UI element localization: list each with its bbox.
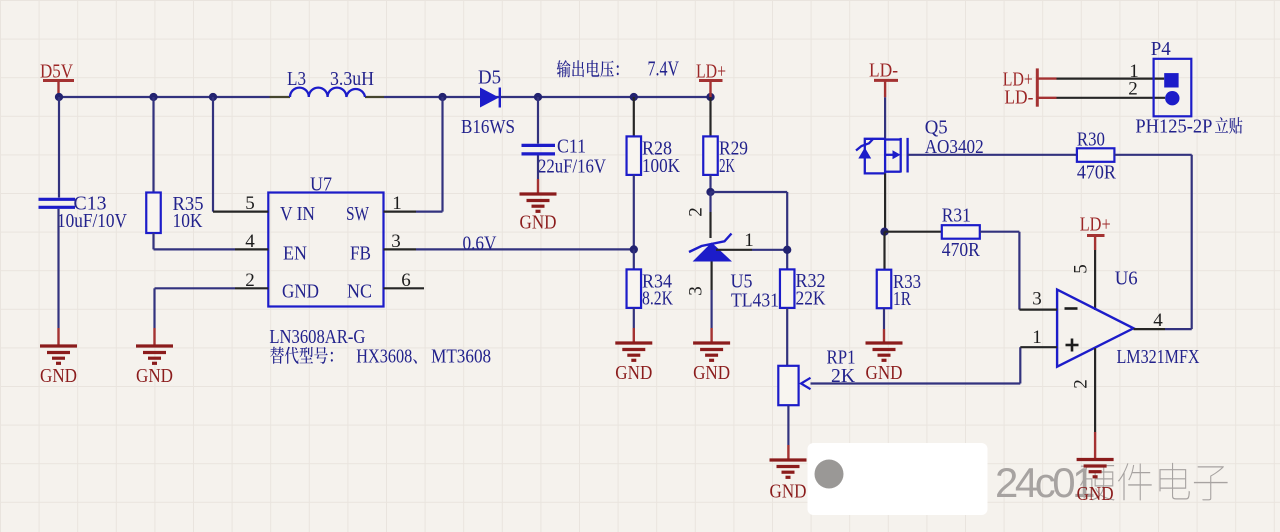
svg-text:GND: GND xyxy=(136,365,173,387)
svg-text:LD-: LD- xyxy=(1004,87,1033,109)
U5 pin 2 wire xyxy=(686,192,711,238)
svg-text:1R: 1R xyxy=(893,288,912,310)
node C11 tap xyxy=(534,93,542,101)
svg-text:4: 4 xyxy=(1153,310,1163,331)
watermark logo disc xyxy=(815,460,844,489)
svg-text:LM321MFX: LM321MFX xyxy=(1117,346,1200,368)
U6 pin 4 output xyxy=(1134,310,1192,331)
svg-text:1: 1 xyxy=(744,230,754,251)
ground U5 xyxy=(693,343,730,384)
svg-text:1: 1 xyxy=(392,193,402,214)
wire C13 to GND xyxy=(57,209,59,345)
resistor R35 xyxy=(146,193,203,234)
wire RP1 to GND xyxy=(787,406,789,459)
svg-text:D5: D5 xyxy=(478,67,501,89)
svg-text:3: 3 xyxy=(1032,289,1042,310)
svg-text:C11: C11 xyxy=(557,136,586,158)
svg-text:470R: 470R xyxy=(1077,162,1117,184)
power bar P4 labels xyxy=(1036,68,1039,106)
U6 pin 5 xyxy=(1071,250,1096,310)
svg-text:GND: GND xyxy=(866,362,903,384)
svg-text:470R: 470R xyxy=(942,239,981,261)
U5 pin 3 wire xyxy=(686,262,712,342)
node SW tap xyxy=(438,93,446,101)
svg-text:EN: EN xyxy=(283,243,307,265)
svg-text:GND: GND xyxy=(693,362,730,384)
diode D5 xyxy=(461,67,515,139)
wire rail to C11 xyxy=(537,97,539,144)
U6 pin 3 xyxy=(1019,289,1057,310)
watermark text CJK xyxy=(1080,463,1228,501)
svg-text:LD+: LD+ xyxy=(1080,214,1111,236)
svg-text:1: 1 xyxy=(1032,327,1042,348)
wire node to R32 top xyxy=(711,192,788,269)
U5 pin 1 wire xyxy=(716,230,787,251)
svg-text:PH125-2P: PH125-2P xyxy=(1135,116,1212,138)
op IC U7 LN3608AR-G xyxy=(268,174,383,307)
wire R31 to op-amp pin3 xyxy=(980,232,1020,310)
resistor R32 xyxy=(780,269,826,309)
label output voltage xyxy=(557,60,619,77)
svg-text:L3: L3 xyxy=(287,68,306,90)
svg-text:10K: 10K xyxy=(173,210,203,232)
power port LD+ opamp xyxy=(1080,214,1111,251)
wire LD+ to R29 xyxy=(709,97,711,136)
node LD+ junction xyxy=(706,93,714,101)
U7 pin 1 SW xyxy=(384,97,443,214)
svg-text:GND: GND xyxy=(520,212,557,234)
node FB divider xyxy=(630,245,638,253)
wire top rail xyxy=(59,96,711,98)
svg-text:R31: R31 xyxy=(942,205,971,227)
wire R35 to EN pin xyxy=(154,233,236,249)
node U5 ref R32 xyxy=(783,246,791,254)
node Q5 source xyxy=(880,228,888,236)
capacitor C11 xyxy=(522,136,607,178)
svg-text:3.3uH: 3.3uH xyxy=(330,68,374,90)
resistor R29 xyxy=(703,136,748,177)
svg-text:5: 5 xyxy=(1071,264,1092,274)
wire R34 to GND xyxy=(633,308,635,342)
svg-text:GND: GND xyxy=(282,281,319,303)
op-amp U6 xyxy=(1057,268,1200,369)
svg-text:R30: R30 xyxy=(1077,129,1105,151)
svg-text:2: 2 xyxy=(1071,379,1092,389)
wire D5V to C13 xyxy=(58,97,60,198)
U7 pin 3 FB wire 0.6V xyxy=(384,231,634,255)
svg-text:22uF/16V: 22uF/16V xyxy=(538,156,606,178)
svg-text:GND: GND xyxy=(40,365,77,387)
ground U7 pin2 xyxy=(136,346,173,387)
svg-text:2: 2 xyxy=(245,270,255,291)
svg-text:LD-: LD- xyxy=(869,60,898,82)
node VIN tap xyxy=(209,93,217,101)
wire node to R34 xyxy=(633,249,635,269)
resistor R33 xyxy=(877,270,921,310)
power port LD- xyxy=(869,60,898,98)
wire Q5 source down xyxy=(884,173,886,231)
ground C11 xyxy=(520,194,557,234)
U7 pin 4 xyxy=(235,231,268,252)
P4 part text xyxy=(1135,116,1242,138)
wire rail to R28 xyxy=(633,97,635,136)
svg-text:TL431: TL431 xyxy=(731,290,779,312)
svg-text:GND: GND xyxy=(615,362,652,384)
ground RP1 xyxy=(770,460,807,503)
resistor R31 xyxy=(942,205,981,262)
wire R33 to GND xyxy=(883,308,885,341)
power port D5V xyxy=(40,61,74,98)
node R35 tap xyxy=(149,93,157,101)
svg-text:SW: SW xyxy=(346,203,369,225)
svg-text:U6: U6 xyxy=(1115,268,1138,290)
U6 pin 1 xyxy=(1020,327,1057,348)
svg-text:0.6V: 0.6V xyxy=(463,233,497,255)
capacitor C13 xyxy=(39,193,128,233)
resistor R34 xyxy=(627,269,674,309)
svg-text:P4: P4 xyxy=(1151,38,1171,60)
svg-text:2K: 2K xyxy=(719,155,735,177)
potentiometer RP1 xyxy=(778,347,855,406)
U7 alternative text xyxy=(270,345,491,367)
wire rail to R35 xyxy=(152,97,154,193)
wire LD- to Q5 drain xyxy=(884,97,886,139)
svg-text:4: 4 xyxy=(245,231,255,252)
wire LD- to P4 pin2 xyxy=(1037,97,1165,99)
svg-text:B16WS: B16WS xyxy=(461,116,515,138)
svg-text:2: 2 xyxy=(1128,79,1138,100)
wire node to R33 xyxy=(883,232,885,270)
svg-text:3: 3 xyxy=(686,286,707,296)
wire R32 to RP1 xyxy=(786,308,788,366)
ground C13 xyxy=(40,346,77,387)
zener U5 TL431 xyxy=(689,234,779,312)
node R29 TL431 xyxy=(706,188,714,196)
svg-text:2: 2 xyxy=(686,207,707,217)
wire node to R31 xyxy=(885,231,942,233)
svg-text:FB: FB xyxy=(350,243,371,265)
svg-text:V IN: V IN xyxy=(280,203,315,225)
power port LD+ top xyxy=(696,61,726,98)
U7 pin 2 xyxy=(155,270,269,345)
ground U6 xyxy=(1077,460,1114,506)
svg-text:22K: 22K xyxy=(796,288,826,310)
resistor R28 xyxy=(627,136,681,177)
node D5V junction xyxy=(55,93,63,101)
ground R34 xyxy=(615,343,652,384)
wire Q5 gate to R30 xyxy=(908,154,1077,156)
U6 pin 2 xyxy=(1071,348,1096,458)
svg-text:8.2K: 8.2K xyxy=(642,288,673,310)
connector P4 xyxy=(1128,38,1191,116)
svg-text:MT3608: MT3608 xyxy=(431,345,491,367)
inductor L3 xyxy=(270,68,385,97)
node R28 tap xyxy=(630,93,638,101)
resistor R30 xyxy=(1077,129,1117,184)
svg-text:NC: NC xyxy=(347,281,372,303)
svg-text:5: 5 xyxy=(245,193,255,214)
svg-text:100K: 100K xyxy=(642,155,680,177)
svg-text:HX3608: HX3608 xyxy=(356,345,412,367)
svg-text:GND: GND xyxy=(1077,483,1114,505)
transistor Q5 AO3402 xyxy=(856,117,984,174)
svg-text:3: 3 xyxy=(391,231,401,252)
svg-text:6: 6 xyxy=(401,270,411,291)
wire LD+ to P4 pin1 xyxy=(1037,77,1164,79)
U7 pin 5 xyxy=(213,97,268,214)
ground R33 xyxy=(866,343,903,384)
svg-text:10uF/10V: 10uF/10V xyxy=(57,210,127,232)
wire R28 to FB node xyxy=(633,175,635,250)
wire R29 to node xyxy=(709,175,711,192)
svg-text:GND: GND xyxy=(770,481,807,503)
watermark white box xyxy=(808,443,988,515)
wire RP1 wiper to op-amp xyxy=(811,347,1021,383)
svg-text:7.4V: 7.4V xyxy=(648,57,680,81)
U7 pin 6 NC xyxy=(384,270,425,291)
svg-text:LN3608AR-G: LN3608AR-G xyxy=(269,326,365,348)
wire C11 to GND xyxy=(537,156,539,193)
wire R30 to op-amp output xyxy=(1114,155,1191,329)
